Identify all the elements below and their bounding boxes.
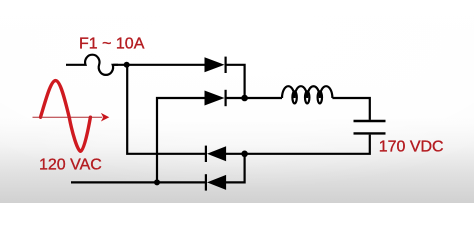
inductor L1	[282, 86, 332, 103]
svg-text:170 VDC: 170 VDC	[379, 139, 444, 156]
wire cap bottom to row3	[226, 135, 370, 154]
wire row4 left	[71, 181, 205, 183]
node junction dot row3	[241, 151, 248, 158]
AC source arrow	[33, 113, 110, 122]
node junction dot row4	[154, 179, 160, 185]
wire D1 to corner and down	[225, 65, 244, 98]
node junction dot D2 output	[241, 95, 248, 102]
fuse F1	[66, 55, 118, 75]
capacitor C1	[354, 121, 386, 133]
diode D2	[205, 90, 226, 106]
node junction dot top-left	[124, 62, 130, 68]
wire vertical V4	[226, 154, 245, 183]
svg-text:F1 ~ 10A: F1 ~ 10A	[79, 36, 145, 53]
wire fuse to diode D1	[113, 64, 204, 66]
wire inductor to cap corner	[332, 98, 369, 120]
AC source sine wave	[41, 81, 91, 152]
diode D1	[205, 57, 226, 73]
wire row2 to inductor	[225, 97, 282, 99]
diode D3	[206, 146, 226, 162]
diode D4	[206, 174, 226, 190]
wire vertical V2 with row2 start	[157, 98, 205, 182]
svg-text:120 VAC: 120 VAC	[39, 157, 102, 174]
wire vertical V1	[127, 65, 205, 154]
